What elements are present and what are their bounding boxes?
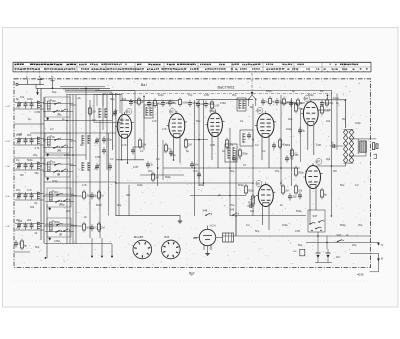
wire row1 top link — [44, 120, 95, 122]
tube B7 legs — [309, 185, 311, 216]
wire electrolytic bottom — [315, 262, 332, 264]
capacitor — [30, 164, 34, 166]
detector can box — [240, 130, 253, 146]
wire horizontal y244 left — [44, 243, 112, 245]
resistor below B4 — [278, 140, 281, 147]
scan noise speckle — [15, 81, 369, 265]
capacitor — [261, 100, 265, 102]
wire vertical x163 — [162, 140, 164, 180]
wire vertical x291.6 — [291, 98, 293, 186]
wire row4 link — [44, 195, 82, 197]
wire x318 drop — [317, 232, 319, 249]
dial scale station text row 1 — [15, 64, 359, 66]
wire speaker top lead y138.9 — [349, 138, 376, 140]
capacitor — [24, 224, 28, 226]
capacitor — [161, 102, 165, 104]
capacitor — [30, 194, 34, 196]
capacitor — [204, 103, 208, 105]
capacitor x110 y166 — [108, 165, 112, 167]
mains dropper resistor box — [223, 233, 234, 242]
capacitor below B4 — [285, 157, 289, 159]
coil — [37, 222, 39, 230]
wire transformer bottom return — [316, 163, 346, 166]
capacitor — [30, 103, 34, 105]
wire horizontal y159.8 — [116, 159, 144, 161]
hum capacitor near transformer — [332, 144, 334, 148]
wire horizontal y216 right part — [230, 215, 306, 217]
box ground arrow — [47, 178, 49, 180]
IF transformer can 3 — [225, 144, 237, 162]
output transformer primary winding — [343, 130, 345, 164]
capacitor — [147, 102, 151, 104]
wire x378.5 vertical — [378, 253, 380, 271]
capacitor left of B7 — [298, 194, 302, 196]
switch coil — [48, 162, 51, 171]
wire box stub — [71, 225, 77, 227]
wire coil bus x86 — [85, 88, 87, 160]
wire band-switch bus 3 — [72, 95, 74, 244]
coil — [81, 162, 83, 171]
wire box cross lower — [45, 201, 74, 203]
dial strip drop dotted T1 — [39, 73, 41, 80]
switch contact — [53, 147, 55, 149]
cathode resistor B7 — [320, 190, 323, 197]
resistor — [325, 100, 328, 105]
coil — [81, 135, 83, 144]
coil — [232, 147, 234, 159]
wire speaker bottom lead y156 — [349, 155, 366, 157]
capacitor — [24, 194, 28, 196]
wire B6 anode to transformer — [311, 100, 346, 128]
resistor left of B6 — [294, 104, 297, 111]
coil — [238, 100, 240, 109]
tube B2 IF amp — [169, 113, 185, 138]
switch contact — [61, 146, 63, 148]
ground symbol center bottom — [179, 219, 181, 221]
switch contact a — [309, 223, 311, 225]
wire box cross lower — [43, 146, 73, 148]
main circuit dashed border — [14, 79, 371, 268]
wire row rail upper — [15, 102, 44, 104]
wire bus x44 — [43, 97, 45, 243]
capacitor — [24, 164, 28, 166]
switch contact — [56, 194, 58, 196]
coil — [227, 147, 229, 159]
wire box cross lower — [43, 110, 73, 112]
capacitor — [168, 101, 172, 103]
capacitor — [102, 138, 106, 140]
wire bottom left — [14, 251, 30, 253]
wire horizontal y183 — [116, 182, 253, 184]
wire band-switch bus 1 — [66, 95, 68, 244]
wire box cross lower — [43, 171, 73, 173]
wire horizontal y242.4 — [306, 241, 379, 243]
wire row rail lower — [15, 229, 44, 231]
coil — [87, 135, 89, 144]
coil — [37, 162, 39, 170]
resistor — [97, 224, 100, 230]
switch S49 — [232, 214, 234, 216]
wire row rail lower — [15, 169, 44, 171]
box ground arrow — [47, 118, 49, 120]
tube B7 rectifier — [306, 166, 321, 189]
mains switch box outline — [308, 210, 325, 232]
capacitor below B1 — [146, 163, 150, 165]
switch contact — [61, 110, 63, 112]
capacitor in can — [247, 134, 251, 136]
resistor right of B5 2nd — [294, 186, 297, 193]
wire transformer top joint — [344, 129, 354, 131]
tube B3 legs — [211, 132, 213, 160]
capacitor — [90, 226, 94, 228]
wire horizontal y253.3 — [350, 252, 379, 254]
coil — [149, 107, 151, 116]
band switch box — [45, 97, 70, 117]
wire top bus y103 right — [284, 102, 305, 104]
wire box cross upper — [43, 102, 73, 104]
band switch box — [45, 158, 70, 177]
dial scale column dividers — [76, 62, 78, 72]
wire vertical x230 — [229, 128, 231, 216]
wire row rail lower — [15, 144, 44, 146]
trimmer capacitor — [95, 139, 99, 141]
band switch box — [45, 133, 70, 153]
switch coil — [48, 101, 51, 110]
wire box cross upper — [45, 193, 74, 195]
resistor left of B5 — [244, 186, 247, 193]
wire terminal drop 2 — [91, 238, 93, 257]
wire vertical x236 — [235, 150, 237, 236]
wire S49 drop — [235, 216, 237, 236]
wire row rail upper — [15, 163, 44, 165]
wire bus x47 lower — [46, 204, 48, 258]
wire band-switch bus 4 — [75, 95, 77, 244]
switch contact — [55, 201, 57, 203]
volume potentiometer — [251, 196, 254, 204]
coil — [104, 108, 106, 118]
wire B6 top right — [318, 109, 331, 111]
bottom left capacitor — [14, 242, 18, 244]
capacitor y152 x171 — [169, 151, 173, 153]
wire horizontal y139.6 — [184, 139, 208, 141]
tube B1 mixer — [117, 114, 131, 138]
coil — [242, 133, 244, 143]
wire row rail upper — [15, 193, 44, 195]
coil — [145, 107, 147, 116]
wire row rail upper — [15, 138, 44, 140]
capacitor below B2 2nd — [197, 173, 201, 175]
coil — [37, 101, 39, 109]
wire stair y86.8 — [60, 86, 105, 88]
wire box stub — [70, 140, 76, 142]
switch contact — [54, 103, 56, 105]
capacitor — [188, 102, 192, 104]
resistor below B3 — [225, 140, 228, 147]
coil — [37, 137, 39, 145]
switch contact c — [318, 221, 320, 223]
trimmer capacitor — [17, 224, 21, 226]
tube B6 output — [303, 102, 318, 126]
wire B7 down to switch box — [309, 215, 311, 224]
tube B5 AF amp — [258, 185, 273, 207]
wire vertical x331.4 — [330, 90, 332, 216]
dial scale tick marks — [16, 71, 365, 72]
wire terminal drop 1 — [45, 257, 47, 259]
resistor — [268, 99, 271, 104]
coil — [242, 100, 244, 109]
wire box feed x103 — [102, 95, 104, 107]
wire gang vertical 1 — [111, 94, 113, 151]
wire B9 to resistor — [216, 237, 223, 239]
wire stair y89 — [63, 88, 100, 90]
wire top bus y99.7 — [196, 99, 253, 101]
resistor below B3 2nd — [238, 150, 241, 156]
switch contact — [63, 230, 65, 232]
wire box feed x97 — [96, 95, 98, 107]
capacitor — [275, 100, 279, 102]
wire bus x41 — [40, 88, 42, 240]
capacitor x104 y150 — [102, 149, 106, 151]
mains resistor box left — [300, 249, 305, 256]
resistor right of B5 — [281, 186, 284, 193]
tube B6 legs — [307, 122, 309, 151]
switch contact b — [315, 228, 317, 230]
wire band-switch bus 2 — [69, 95, 71, 244]
tube B1 legs — [121, 134, 123, 160]
wire box cross upper — [43, 138, 73, 140]
capacitor — [320, 102, 324, 104]
resistor below B4 2nd — [290, 150, 293, 156]
switch contact — [53, 171, 55, 173]
box ground arrow — [49, 238, 51, 240]
wire row rail lower — [15, 108, 44, 110]
switch contact — [56, 224, 58, 226]
wire row rail lower — [15, 199, 44, 201]
wire coil bus x100 — [99, 120, 101, 238]
dial pointer fork — [249, 95, 253, 99]
scan tone wash — [14, 79, 371, 268]
wire horizontal y158 — [14, 157, 44, 159]
wire aerial top horizontal — [36, 87, 110, 89]
band switch box — [47, 188, 71, 207]
wire transformer bottom joint — [344, 162, 354, 164]
wire terminal drop 3 — [101, 238, 103, 257]
capacitor x274 y145 — [272, 144, 276, 146]
wire vertical x281 — [280, 95, 282, 186]
switch contact — [61, 170, 63, 172]
wire switch drop x119 — [118, 121, 120, 216]
wire hum cap to winding — [338, 145, 344, 147]
wire horizontal y175 — [140, 174, 184, 176]
tube B5 legs — [262, 203, 264, 226]
resistor — [282, 99, 285, 104]
tube B2 legs — [173, 134, 175, 161]
band switch box — [47, 218, 71, 237]
wire bottom outside y271.8 — [370, 271, 379, 273]
wire AVC horizontal y168 — [163, 167, 300, 169]
wire box cross upper — [45, 223, 74, 225]
resistor — [178, 100, 181, 105]
resistor below B1 2nd — [151, 174, 154, 180]
terminal T1 post — [38, 79, 43, 81]
capacitor — [24, 103, 28, 105]
wire row5 link — [44, 225, 82, 227]
wire terminal drop 4 — [111, 244, 113, 257]
coil — [87, 162, 89, 171]
wire box stub — [70, 104, 76, 106]
coil — [37, 192, 39, 200]
wire row rail upper — [15, 223, 44, 225]
grid resistor B6 — [320, 106, 323, 113]
wire horizontal y182 — [44, 181, 116, 183]
faint fold line — [14, 280, 371, 282]
terminal aerial circle — [16, 83, 18, 85]
trimmer capacitor — [17, 103, 21, 105]
junction dots — [40, 105, 42, 107]
electrolytic capacitor 1 — [316, 252, 321, 254]
wire aerial drop with arrow — [37, 88, 39, 92]
valve socket B8 — [162, 240, 181, 259]
resistor — [153, 101, 156, 106]
resistor — [137, 99, 140, 104]
switch coil — [50, 192, 53, 201]
box ground arrow — [47, 154, 49, 156]
resistor left of B7 — [294, 168, 297, 175]
wire vertical x203.4 — [202, 100, 204, 186]
resistor below B1 — [138, 140, 141, 147]
IF transformer can 1 — [144, 105, 153, 118]
wire vertical x194.6 — [194, 100, 196, 216]
resistor — [82, 224, 85, 230]
box ground arrow — [49, 208, 51, 210]
wire B5 grid line y195.6 — [190, 195, 246, 197]
trimmer capacitor — [113, 111, 117, 113]
wire vertical x120 short — [119, 94, 121, 114]
switch contact — [54, 164, 56, 166]
switch coil — [50, 222, 53, 231]
resistor — [82, 192, 85, 198]
wire coil bus x103 — [102, 94, 104, 131]
resistor left of B2 — [164, 145, 167, 151]
wire vertical x144 — [143, 96, 145, 150]
capacitor — [24, 139, 28, 141]
tube B9 tuning indicator — [199, 229, 215, 245]
capacitor left of B5 — [249, 204, 251, 208]
wire horizontal y120.5 ext — [95, 120, 112, 122]
capacitor below B1 3rd — [131, 149, 135, 151]
arrow terminal y242 — [377, 243, 379, 246]
resistor — [210, 102, 213, 108]
capacitor below B2 — [190, 163, 194, 165]
wire gang vertical 2 — [115, 94, 117, 217]
capacitor — [30, 139, 34, 141]
wire vertical x135 — [134, 91, 136, 161]
heater wire bend — [128, 185, 130, 216]
wire horizontal y236 — [222, 235, 371, 237]
resistor below B2 — [184, 140, 187, 147]
trimmer capacitor — [17, 139, 21, 141]
tuning gang dash-dot link vertical to dial pointer — [251, 73, 253, 92]
wire horizontal y147 — [133, 146, 144, 148]
wire B9 cathode down — [207, 246, 209, 252]
speaker coil box — [357, 139, 359, 154]
capacitor below-left B6 — [298, 129, 302, 131]
wire coil bus x90 — [89, 100, 91, 238]
wire vertical x300.4 — [299, 110, 301, 162]
wire aerial upper horizontal — [18, 83, 44, 85]
capacitor — [90, 194, 94, 196]
wire vertical x253 — [252, 104, 254, 216]
wire row2 link — [44, 154, 86, 156]
tube B3 IF amp — [208, 113, 223, 137]
dial strip drop dotted T2 — [51, 73, 53, 80]
trimmer capacitor — [17, 194, 21, 196]
capacitor — [129, 101, 133, 103]
wire box cross upper — [43, 163, 73, 165]
screen grid stub — [327, 94, 329, 96]
wire coil bus x107 — [106, 94, 108, 171]
capacitor — [196, 103, 200, 105]
resistor — [296, 100, 299, 105]
wire x327 drop — [326, 236, 328, 249]
capacitor — [289, 102, 293, 104]
dial strip drop dotted t1 — [26, 73, 28, 80]
wire vertical x157.7 — [157, 103, 159, 186]
coil — [98, 108, 100, 118]
switch contact — [54, 139, 56, 141]
trimmer capacitor — [95, 165, 99, 167]
capacitor — [30, 224, 34, 226]
dial scale station text row 2 — [15, 68, 368, 70]
electrolytic capacitor 2 — [326, 252, 331, 254]
capacitor below B3 — [232, 157, 236, 159]
wire box stub — [70, 165, 76, 167]
wire horizontal y215.6 — [116, 216, 180, 219]
wire top bus y100.3 — [120, 99, 178, 101]
switch contact — [53, 111, 55, 113]
terminal t1 post — [27, 79, 29, 84]
wire vertical x337 — [336, 94, 338, 151]
switch S48 — [205, 214, 207, 216]
switch S47b — [337, 241, 339, 243]
wire aerial ext — [95, 90, 135, 92]
wire horizontal y124 — [14, 123, 44, 125]
wire horizontal y133 — [30, 132, 116, 134]
wire switch drop x108.5 — [108, 133, 110, 216]
resistor — [97, 192, 100, 198]
switch contact — [63, 200, 65, 202]
switch coil — [48, 137, 51, 146]
wire box cross lower — [45, 231, 74, 233]
jack lower bracket — [374, 154, 377, 158]
wire box stub — [71, 195, 77, 197]
wire vertical x199 — [198, 100, 200, 186]
wire stair y94.6 — [66, 94, 120, 96]
wire B9 left lead — [195, 237, 200, 239]
extension speaker jack outside border — [373, 143, 375, 150]
trimmer capacitor — [17, 164, 21, 166]
tuning gang dash-dot link horizontal — [103, 93, 332, 95]
valve socket B1+B7 — [133, 240, 152, 259]
wire top AVC bus y90.6 — [65, 90, 331, 92]
output transformer secondary winding — [349, 130, 351, 164]
wire stair y92 — [65, 92, 112, 95]
dial scale strip frame — [13, 61, 371, 63]
bottom left resistor — [20, 241, 23, 248]
terminal T2 post — [52, 79, 54, 88]
tube B4 legs — [261, 134, 263, 161]
oscillator coil box row1 — [94, 95, 122, 123]
